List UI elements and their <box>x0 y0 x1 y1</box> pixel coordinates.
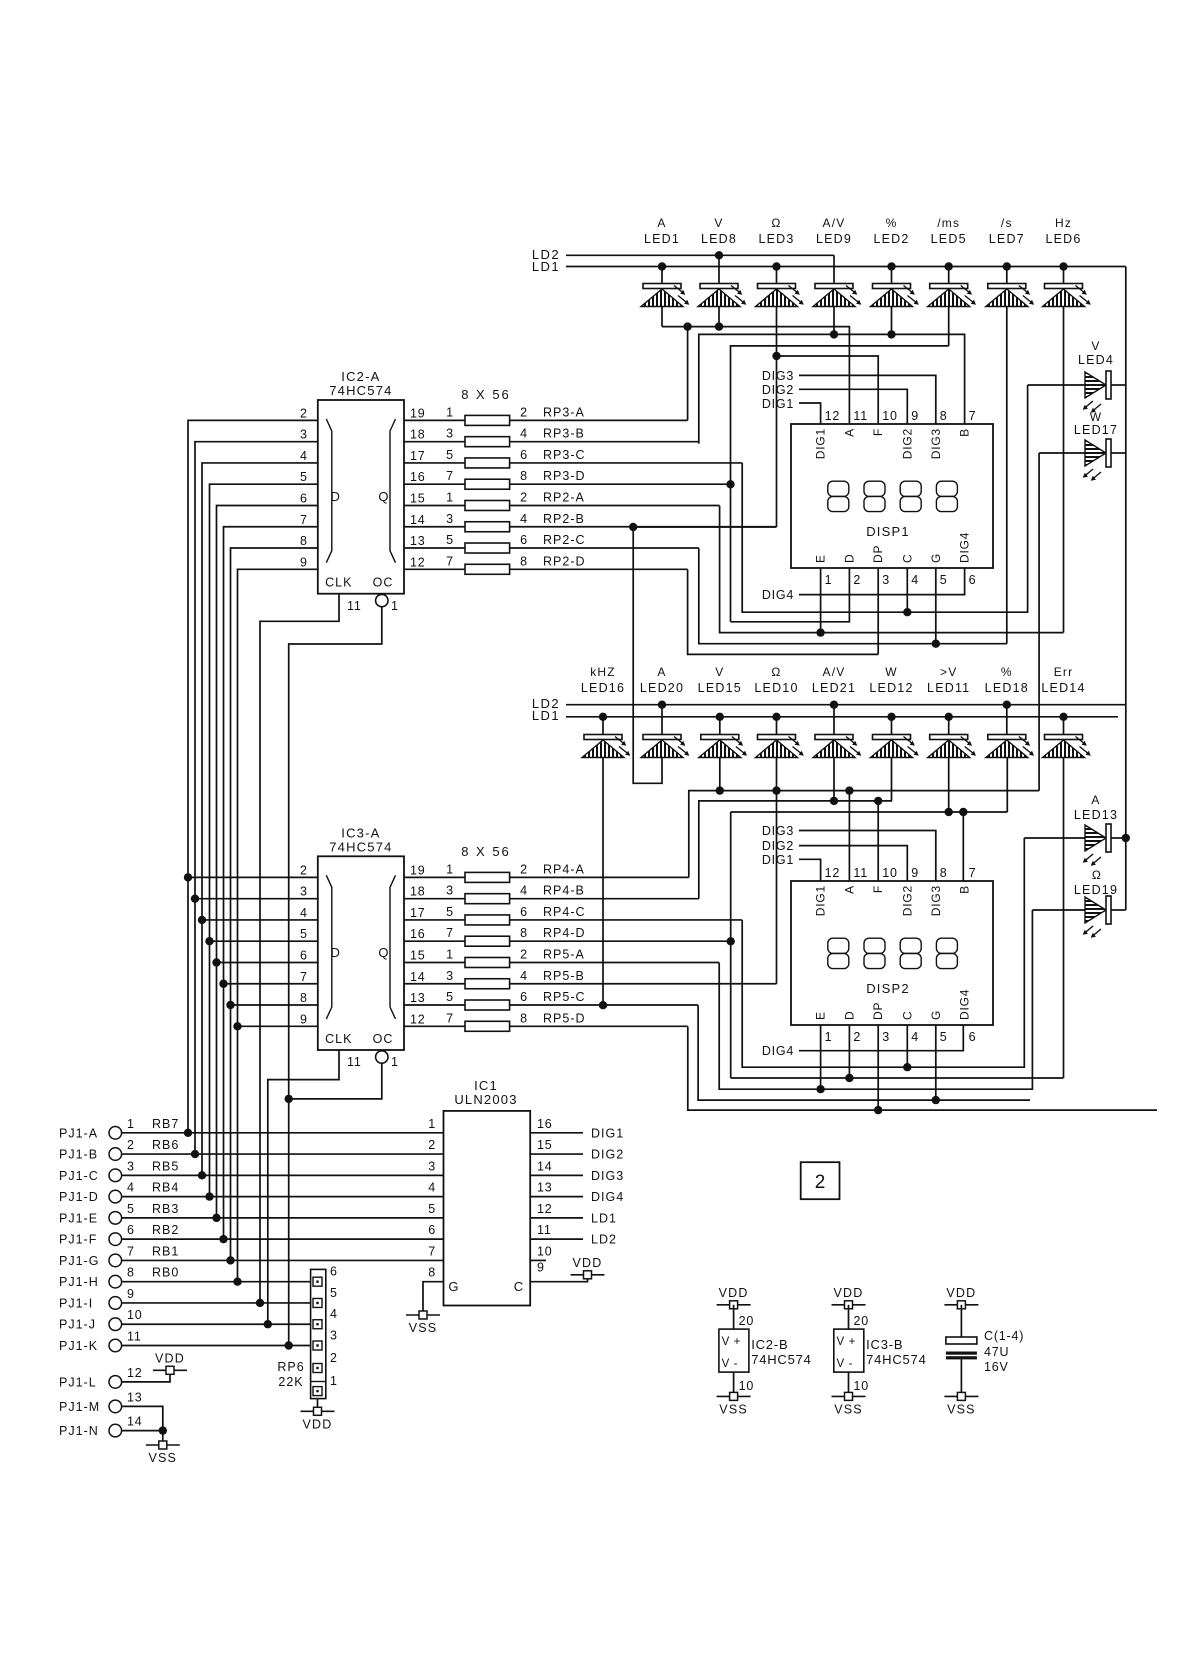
svg-text:10: 10 <box>537 1244 553 1258</box>
svg-text:74HC574: 74HC574 <box>329 839 392 854</box>
LED17 <box>1083 439 1111 481</box>
svg-text:RP5-B: RP5-B <box>543 969 585 983</box>
svg-text:RP4-A: RP4-A <box>543 862 585 876</box>
LED15 <box>699 735 747 758</box>
svg-text:DIG2: DIG2 <box>900 428 914 459</box>
svg-text:LED2: LED2 <box>873 232 909 246</box>
svg-text:8: 8 <box>940 409 948 423</box>
junction bus RB2 <box>219 1235 227 1243</box>
svg-text:DIG1: DIG1 <box>762 853 794 867</box>
junction pin5-G2 <box>932 1096 940 1104</box>
wire IC3-A OC <box>289 1063 382 1099</box>
bus net D2b (RP4-D / DISP2 pin2 / LED14) <box>731 1077 1064 1079</box>
junction pin1-E <box>816 628 824 636</box>
svg-text:15: 15 <box>410 491 426 505</box>
svg-text:1: 1 <box>391 1055 399 1069</box>
svg-text:CLK: CLK <box>325 576 352 590</box>
junction CLK IC3 <box>264 1320 272 1328</box>
wire LED3 anode <box>776 267 778 284</box>
svg-text:19: 19 <box>410 863 426 877</box>
bus net C2 (RP4-C / DISP2 pin4 / LED13) <box>742 838 1024 1067</box>
wire RP4-D riser <box>730 812 732 1078</box>
wire IC2-A pin 7 to bus <box>224 527 318 1239</box>
wire RP5-C lead <box>510 1004 698 1006</box>
svg-text:V: V <box>714 216 723 230</box>
svg-text:3: 3 <box>428 1159 436 1173</box>
connector pin PJ1-G <box>109 1254 122 1267</box>
LED8 <box>698 284 746 307</box>
svg-text:9: 9 <box>911 409 919 423</box>
svg-text:A/V: A/V <box>823 216 846 230</box>
svg-text:8: 8 <box>520 1011 528 1025</box>
junction LD rail LED14 <box>1059 713 1067 721</box>
connector pin PJ1-J <box>109 1318 122 1331</box>
svg-text:RP4-D: RP4-D <box>543 926 586 940</box>
svg-text:5: 5 <box>330 1286 338 1300</box>
wire IC2-A pin 3 to bus <box>195 442 318 1154</box>
svg-text:7: 7 <box>300 513 308 527</box>
wire IC2-A output row RP3-D <box>404 483 465 485</box>
svg-text:17: 17 <box>410 906 426 920</box>
junction LD1-LED2 <box>887 262 895 270</box>
svg-text:1: 1 <box>446 490 454 504</box>
wire PJ1-C to IC1 pin 3 <box>122 1174 444 1176</box>
svg-text:7: 7 <box>428 1244 436 1258</box>
wire PJ1-G to IC1 pin 7 <box>122 1259 444 1261</box>
svg-text:DIG4: DIG4 <box>591 1190 624 1204</box>
svg-text:DP: DP <box>871 1002 885 1020</box>
svg-text:RB3: RB3 <box>152 1202 179 1216</box>
svg-text:4: 4 <box>330 1307 338 1321</box>
svg-text:ULN2003: ULN2003 <box>454 1092 517 1107</box>
svg-text:LED9: LED9 <box>816 232 852 246</box>
resistor RP2-C <box>465 543 510 553</box>
wire RP3-A lead <box>510 419 688 421</box>
IC IC3-A latch glyph right <box>390 875 396 1019</box>
wire LED14 anode <box>1063 717 1065 735</box>
wire PJ1-I to RP6 pad5 / CLK2 <box>122 1302 311 1304</box>
wire LED15 cathode <box>719 758 721 791</box>
svg-text:DIG3: DIG3 <box>762 824 794 838</box>
wire LED11 cathode <box>948 758 950 813</box>
svg-text:4: 4 <box>520 969 528 983</box>
svg-text:22K: 22K <box>278 1375 303 1389</box>
capacitor C(1-4) bottom plate <box>946 1352 977 1355</box>
junction B2 LED11 <box>945 808 953 816</box>
wire LED13 anode <box>1024 837 1085 839</box>
svg-text:8: 8 <box>127 1266 135 1280</box>
wire IC2-A output row RP2-D <box>404 568 465 570</box>
svg-text:LED11: LED11 <box>927 681 970 695</box>
junction LD rail LED11 <box>945 713 953 721</box>
resistor RP4-C <box>465 915 510 925</box>
wire PJ1-B to IC1 pin 2 <box>122 1153 444 1155</box>
wire DISP2 pin1 drop <box>820 1025 822 1089</box>
svg-text:V: V <box>715 665 724 679</box>
svg-text:20: 20 <box>739 1314 755 1328</box>
svg-text:2: 2 <box>520 947 528 961</box>
wire LED2 cathode <box>891 307 893 334</box>
svg-text:14: 14 <box>410 513 426 527</box>
svg-text:10: 10 <box>127 1308 143 1322</box>
svg-text:7: 7 <box>446 1011 454 1025</box>
junction bus to IC3-A pin 4 <box>202 919 318 921</box>
svg-text:RP3-C: RP3-C <box>543 448 586 462</box>
bus segment B (RP3-B to DISP1 pin7) <box>699 334 965 443</box>
svg-text:LED19: LED19 <box>1074 883 1118 897</box>
resistor RP4-D <box>465 936 510 946</box>
svg-text:5: 5 <box>428 1202 436 1216</box>
svg-text:VDD: VDD <box>946 1286 976 1300</box>
svg-text:11: 11 <box>347 599 362 613</box>
svg-text:3: 3 <box>882 573 890 587</box>
junction OC shared net <box>285 1095 293 1103</box>
svg-text:4: 4 <box>520 512 528 526</box>
junction LD1-LED7 <box>1003 262 1011 270</box>
wire IC3-A CLK (pin 11) <box>268 1050 339 1325</box>
connector pin PJ1-B <box>109 1148 122 1161</box>
wire LED5 anode <box>948 267 950 284</box>
svg-text:LED18: LED18 <box>985 681 1029 695</box>
svg-text:8: 8 <box>300 991 308 1005</box>
svg-text:RB1: RB1 <box>152 1244 179 1258</box>
svg-text:2: 2 <box>853 573 861 587</box>
svg-text:LD1: LD1 <box>532 708 560 723</box>
wire LED16 anode <box>602 717 604 735</box>
wire DISP2 pin7 riser <box>962 812 964 881</box>
RP6 pad 5 <box>313 1298 322 1307</box>
connector pin PJ1-K <box>109 1339 122 1352</box>
svg-text:3: 3 <box>446 427 454 441</box>
wire PJ1-L to VDD <box>122 1374 170 1382</box>
svg-text:18: 18 <box>410 428 426 442</box>
bus net A2 (RP4-A / LED10 / DISP2 pin11 / LED17) <box>689 791 1039 878</box>
svg-text:Hz: Hz <box>1055 216 1072 230</box>
wire LED8 cathode <box>718 307 720 327</box>
wire DISP2 pin10 riser <box>877 801 879 881</box>
svg-text:A: A <box>1091 793 1100 807</box>
svg-text:RP3-A: RP3-A <box>543 405 585 419</box>
wire RP6 pin1 to VDD <box>317 1399 319 1408</box>
junction LD rail LED18 <box>1003 701 1011 709</box>
svg-text:6: 6 <box>330 1265 338 1279</box>
svg-text:DIG2: DIG2 <box>900 885 914 916</box>
svg-text:LED1: LED1 <box>644 232 680 246</box>
wire IC3-A output row RP4-D <box>404 940 465 942</box>
svg-text:DIG4: DIG4 <box>762 1044 794 1058</box>
svg-text:8: 8 <box>520 554 528 568</box>
svg-text:V -: V - <box>837 1358 854 1370</box>
svg-text:6: 6 <box>520 448 528 462</box>
wire IC1 output DIG4 <box>530 1196 583 1198</box>
svg-text:IC1: IC1 <box>474 1078 498 1093</box>
wire IC1 output LD2 <box>530 1238 583 1240</box>
wire IC2-A output row RP3-B <box>404 441 465 443</box>
svg-text:6: 6 <box>428 1223 436 1237</box>
svg-text:VDD: VDD <box>155 1351 185 1365</box>
connector pin PJ1-L <box>109 1376 122 1389</box>
resistor RP2-A <box>465 500 510 510</box>
svg-text:LED10: LED10 <box>754 681 798 695</box>
svg-text:4: 4 <box>300 906 308 920</box>
wire LED12 anode <box>891 717 893 735</box>
wire IC2-B to VSS <box>733 1372 735 1396</box>
junction LD rail LED12 <box>887 713 895 721</box>
wire IC3-A output row RP4-C <box>404 919 465 921</box>
LED4 <box>1083 371 1111 413</box>
svg-text:3: 3 <box>300 885 308 899</box>
svg-text:VSS: VSS <box>834 1402 863 1416</box>
svg-text:10: 10 <box>882 409 898 423</box>
svg-text:B: B <box>958 428 972 437</box>
wire IC1 output DIG1 <box>530 1132 583 1134</box>
wire right rail vertical <box>1125 267 1127 911</box>
svg-text:LED14: LED14 <box>1041 681 1085 695</box>
wire DIG1 to DISP2 pin12 <box>799 859 821 881</box>
connector pin PJ1-N <box>109 1424 122 1437</box>
svg-text:74HC574: 74HC574 <box>751 1352 812 1367</box>
svg-text:PJ1-E: PJ1-E <box>59 1211 98 1225</box>
wire IC2-A pin 5 to bus <box>210 484 318 1196</box>
svg-text:13: 13 <box>410 991 426 1005</box>
power symbol VSS (IC2-B) <box>717 1392 751 1400</box>
wire LD2 rail (top) <box>566 254 834 256</box>
svg-text:1: 1 <box>825 573 833 587</box>
svg-text:RP6: RP6 <box>277 1360 304 1374</box>
junction bus to IC3-A pin 7 <box>224 983 318 985</box>
wire IC1 output DIG3 <box>530 1174 583 1176</box>
svg-text:3: 3 <box>446 884 454 898</box>
svg-text:16V: 16V <box>984 1360 1009 1374</box>
wire IC2-A output row RP3-A <box>404 419 465 421</box>
resistor RP2-B <box>465 522 510 532</box>
junction CLK IC2 <box>256 1299 264 1307</box>
svg-text:IC3-A: IC3-A <box>341 825 380 840</box>
svg-text:LED13: LED13 <box>1074 808 1118 822</box>
LED13 <box>1083 824 1111 866</box>
wire RP2-B lead <box>510 526 777 528</box>
svg-text:4: 4 <box>520 884 528 898</box>
LED18 <box>986 735 1034 758</box>
wire LED20 anode <box>661 705 663 735</box>
svg-text:1: 1 <box>825 1030 833 1044</box>
junction A2 LED10 <box>772 786 780 794</box>
wire IC3-A output row RP4-B <box>404 898 465 900</box>
svg-text:DIG2: DIG2 <box>591 1148 624 1162</box>
wire PJ1-A to IC1 pin 1 <box>122 1132 444 1134</box>
wire LED13 cathode <box>1111 837 1126 839</box>
svg-text:13: 13 <box>127 1390 143 1404</box>
resistor RP4-A <box>465 872 510 882</box>
wire LED17 anode <box>1039 452 1085 454</box>
svg-text:2: 2 <box>300 863 308 877</box>
svg-text:LED16: LED16 <box>581 681 625 695</box>
resistor RP5-D <box>465 1021 510 1031</box>
junction pin4-C2 <box>903 1063 911 1071</box>
svg-text:6: 6 <box>300 948 308 962</box>
IC IC2-A latch glyph left <box>326 419 332 563</box>
svg-text:RB0: RB0 <box>152 1266 179 1280</box>
junction bus-B LED2 <box>887 330 895 338</box>
svg-text:LD1: LD1 <box>532 259 560 274</box>
svg-text:A: A <box>657 216 666 230</box>
sheet number box <box>801 1162 840 1199</box>
wire RP4-D lead <box>510 940 731 942</box>
wire DIG3 to DISP2 pin8 <box>799 831 936 882</box>
svg-text:C: C <box>900 554 914 563</box>
LED7 <box>986 284 1034 307</box>
svg-text:16: 16 <box>537 1117 553 1131</box>
svg-text:RB7: RB7 <box>152 1117 179 1131</box>
wire LED1 anode <box>661 267 663 284</box>
svg-text:PJ1-D: PJ1-D <box>59 1190 99 1204</box>
wire LED17 riser <box>1038 453 1040 791</box>
svg-text:74HC574: 74HC574 <box>866 1352 927 1367</box>
svg-text:G: G <box>929 553 943 563</box>
svg-text:LED5: LED5 <box>931 232 967 246</box>
wire PJ1-D to IC1 pin 4 <box>122 1196 444 1198</box>
svg-text:Q: Q <box>378 945 389 960</box>
wire DISP2 pin11 riser <box>848 791 850 881</box>
wire DIG4 to DISP1 pin6 <box>799 568 965 595</box>
wire IC3-A output row RP5-A <box>404 961 465 963</box>
resistor RP3-A <box>465 415 510 425</box>
wire RP3-D lead <box>510 483 731 485</box>
svg-text:G: G <box>929 1010 943 1020</box>
svg-text:PJ1-C: PJ1-C <box>59 1169 99 1183</box>
wire RP2-D lead <box>510 568 688 570</box>
wire LED21 cathode <box>833 758 835 801</box>
svg-text:5: 5 <box>940 573 948 587</box>
svg-text:7: 7 <box>446 469 454 483</box>
junction bus RB5 <box>198 1171 206 1179</box>
svg-text:C(1-4): C(1-4) <box>984 1329 1024 1343</box>
svg-text:DIG3: DIG3 <box>929 885 943 916</box>
svg-text:4: 4 <box>911 573 919 587</box>
wire LED4 cathode to LD1 rail <box>1111 384 1126 386</box>
svg-text:RP4-C: RP4-C <box>543 905 586 919</box>
LED14 <box>1043 735 1091 758</box>
svg-text:4: 4 <box>428 1181 436 1195</box>
svg-text:OC: OC <box>373 576 394 590</box>
svg-text:2: 2 <box>853 1030 861 1044</box>
svg-text:11: 11 <box>853 409 868 423</box>
svg-text:3: 3 <box>330 1329 338 1343</box>
svg-text:DIG1: DIG1 <box>591 1126 624 1140</box>
svg-text:PJ1-N: PJ1-N <box>59 1424 99 1438</box>
svg-text:4: 4 <box>127 1181 135 1195</box>
svg-text:7: 7 <box>446 554 454 568</box>
power symbol VSS (PJ1-N) <box>146 1441 180 1449</box>
LED6 <box>1043 284 1091 307</box>
wire IC2-A CLK (pin 11) <box>260 594 339 1304</box>
svg-text:7: 7 <box>969 409 977 423</box>
LED16 <box>582 735 630 758</box>
wire IC2-A pin 9 to bus <box>238 569 318 1281</box>
wire LED7 anode <box>1006 267 1008 284</box>
svg-text:DP: DP <box>871 545 885 563</box>
LED9 <box>813 284 861 307</box>
svg-text:Ω: Ω <box>771 216 781 230</box>
svg-text:10: 10 <box>882 866 898 880</box>
wire LED4 anode <box>1028 384 1085 386</box>
power symbol VDD (IC3-B) <box>832 1301 866 1309</box>
IC IC3-B power body <box>834 1329 864 1372</box>
wire PJ1-H to IC1 pin 8 <box>122 1281 311 1283</box>
IC IC3-A latch glyph left <box>326 875 332 1019</box>
svg-text:2: 2 <box>520 490 528 504</box>
junction RP5-C LED16 <box>599 1001 607 1009</box>
svg-text:PJ1-G: PJ1-G <box>59 1254 99 1268</box>
bus segment D-upper (to RP3-D riser) <box>731 346 949 622</box>
svg-text:RP2-C: RP2-C <box>543 533 586 547</box>
wire DIG2 to DISP2 pin9 <box>799 846 907 881</box>
svg-text:10: 10 <box>854 1379 870 1393</box>
junction bus to IC3-A pin 6 <box>217 961 318 963</box>
bus net DP-lower (RP2-D / DISP1 pin3) <box>688 570 879 655</box>
IC1 pin 10 stub <box>530 1259 546 1261</box>
junction bus to IC3-A pin 5 <box>210 940 318 942</box>
junction bus-B LED9 <box>830 330 838 338</box>
wire DIG4 to DISP2 pin6 <box>799 1025 963 1051</box>
svg-text:74HC574: 74HC574 <box>329 383 392 398</box>
junction LD rail LED10 <box>772 713 780 721</box>
IC IC1 body <box>444 1111 531 1306</box>
capacitor C(1-4) top plate <box>946 1337 977 1344</box>
svg-text:10: 10 <box>739 1379 755 1393</box>
svg-text:11: 11 <box>853 866 868 880</box>
svg-text:D: D <box>842 1011 856 1020</box>
wire DISP2 pin2 drop <box>848 1025 850 1078</box>
svg-text:LED15: LED15 <box>698 681 742 695</box>
svg-text:DIG1: DIG1 <box>814 885 828 916</box>
wire IC1 pin8 GND to VSS <box>423 1282 444 1311</box>
IC IC2-B power body <box>719 1329 749 1372</box>
svg-text:B: B <box>958 885 972 894</box>
svg-text:A: A <box>842 885 856 894</box>
svg-text:6: 6 <box>520 905 528 919</box>
svg-text:PJ1-H: PJ1-H <box>59 1275 99 1289</box>
resistor RP5-A <box>465 957 510 967</box>
wire RP2-A lead <box>510 504 720 506</box>
LED12 <box>871 735 919 758</box>
resistor RP3-D <box>465 479 510 489</box>
LED5 <box>928 284 976 307</box>
wire RP5-D lead <box>510 1025 688 1027</box>
power symbol VDD (IC2-B) <box>717 1301 751 1309</box>
svg-text:E: E <box>814 554 828 563</box>
svg-text:A: A <box>657 665 666 679</box>
wire VDD to IC2-B <box>733 1305 735 1329</box>
svg-text:12: 12 <box>825 409 841 423</box>
wire PJ1-N <box>122 1430 163 1432</box>
junction bus to IC3-A pin 2 <box>188 876 318 878</box>
svg-text:DIG4: DIG4 <box>958 989 972 1020</box>
svg-text:Ω: Ω <box>1092 868 1102 882</box>
wire to VSS <box>162 1431 164 1441</box>
resistor RP5-B <box>465 979 510 989</box>
resistor RP4-B <box>465 894 510 904</box>
svg-text:IC3-B: IC3-B <box>866 1337 903 1352</box>
wire DISP2 pin3 drop <box>877 1025 879 1110</box>
connector pin PJ1-H <box>109 1275 122 1288</box>
junction bus to IC3-A pin 8 <box>231 1004 318 1006</box>
svg-text:A/V: A/V <box>823 665 846 679</box>
wire LED19 anode <box>1032 909 1085 911</box>
svg-text:47U: 47U <box>984 1345 1009 1359</box>
svg-text:7: 7 <box>300 970 308 984</box>
svg-text:LD2: LD2 <box>591 1233 617 1247</box>
